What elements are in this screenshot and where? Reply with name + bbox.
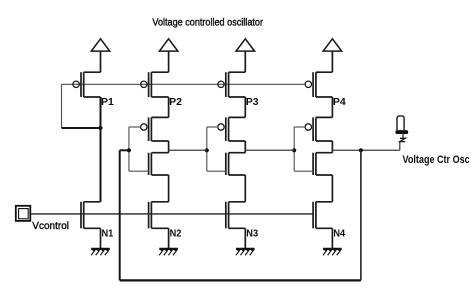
wire: feedback bottom rail <box>120 279 361 281</box>
label P4 <box>333 96 346 108</box>
label N3 <box>246 228 258 240</box>
label N2 <box>170 228 182 240</box>
node: inverter 3 input dot <box>205 148 209 152</box>
svg-text:P1: P1 <box>101 96 114 108</box>
svg-text:N2: N2 <box>170 228 182 240</box>
label Voltage Ctr Osc <box>403 154 470 166</box>
wire: stage-1 bias column (P1 drain to N1 drain) <box>100 97 102 202</box>
label N1 <box>102 228 114 240</box>
transistor P4 (PMOS current source) <box>305 72 332 97</box>
probe output symbol <box>395 116 408 142</box>
label N4 <box>333 228 345 240</box>
transistor inverter NMOS stage 3 <box>207 141 246 202</box>
title: Voltage controlled oscillator <box>152 18 263 29</box>
svg-text:N1: N1 <box>102 228 114 240</box>
node: inverter 4 input dot <box>292 148 296 152</box>
wire: feedback right branch from output node <box>360 150 362 280</box>
wire: gate tie stage 4 <box>293 127 295 171</box>
label P1 <box>101 96 114 108</box>
ground symbol under N2 <box>159 249 178 255</box>
transistor P3 (PMOS current source) <box>218 72 246 97</box>
wire: gate tie stage 2 <box>128 127 130 171</box>
transistor N3 (NMOS) <box>226 202 246 249</box>
transistor N1 (NMOS) <box>81 202 101 249</box>
svg-text:P3: P3 <box>246 96 259 108</box>
transistor P1 (PMOS current source) <box>73 72 101 97</box>
power VDD4 supply triangle <box>323 39 341 72</box>
wire: PMOS gate bias bus <box>62 83 306 85</box>
transistor inverter PMOS stage 2 <box>129 97 169 141</box>
power VDD3 supply triangle <box>236 39 254 72</box>
power VDD2 supply triangle <box>159 39 177 72</box>
svg-text:N3: N3 <box>246 228 258 240</box>
wire: inverter 3 output to inverter 4 input <box>245 149 294 151</box>
svg-text:Voltage controlled oscillator: Voltage controlled oscillator <box>152 18 263 29</box>
wire: Vcontrol bus to all NMOS gates <box>30 213 313 215</box>
transistor inverter PMOS stage 3 <box>207 97 246 141</box>
node: oscillator output junction dot <box>359 148 363 152</box>
transistor inverter NMOS stage 2 <box>129 141 169 202</box>
transistor N4 (NMOS) <box>313 202 332 249</box>
label P3 <box>246 96 259 108</box>
wire: P1 diode connection (gate to drain) <box>62 84 101 128</box>
svg-text:N4: N4 <box>333 228 345 240</box>
wire: inverter 4 output to probe <box>332 142 399 151</box>
node: inverter 2 input dot <box>127 148 131 152</box>
ground symbol under N1 <box>91 249 110 255</box>
ground symbol under N3 <box>236 249 255 255</box>
wire: gate tie stage 3 <box>206 127 208 171</box>
transistor P2 (PMOS current source) <box>141 72 169 97</box>
wire: feedback left branch to inverter 2 input <box>120 150 129 280</box>
svg-text:P4: P4 <box>333 96 346 108</box>
transistor inverter PMOS stage 4 <box>294 97 332 141</box>
svg-text:Vcontrol: Vcontrol <box>32 221 69 232</box>
port Vcontrol (input pad) <box>16 206 30 221</box>
transistor inverter NMOS stage 4 <box>294 141 332 202</box>
label P2 <box>169 96 182 108</box>
wire: inverter 2 output to inverter 3 input <box>169 149 207 151</box>
transistor N2 (NMOS) <box>149 202 169 249</box>
svg-text:Voltage Ctr Osc: Voltage Ctr Osc <box>403 154 470 166</box>
node: bias node junction dot <box>98 126 102 130</box>
svg-text:P2: P2 <box>169 96 182 108</box>
power VDD1 supply triangle <box>91 39 109 72</box>
label Vcontrol <box>32 221 69 232</box>
ground symbol under N4 <box>323 249 342 255</box>
